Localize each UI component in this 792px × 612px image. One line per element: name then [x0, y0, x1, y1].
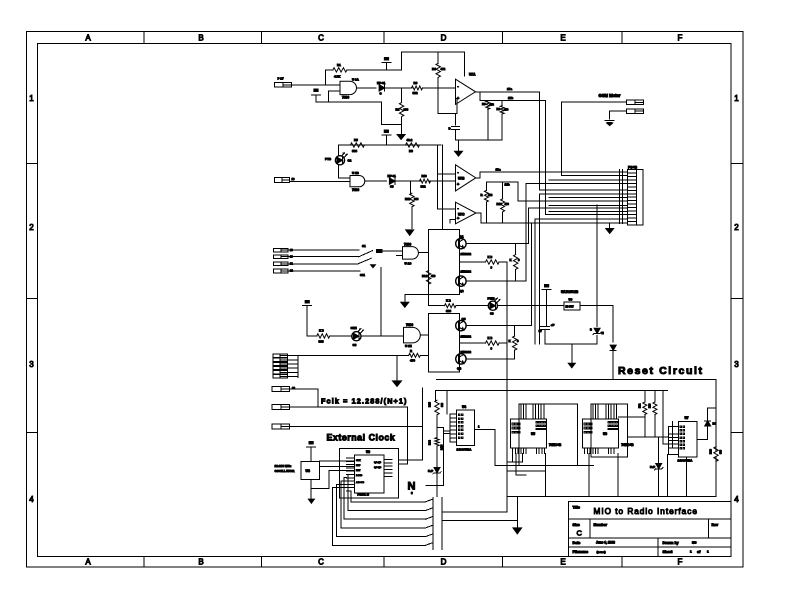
svg-text:QC QD: QC QD: [374, 467, 382, 469]
svg-text:R25: R25: [428, 402, 432, 407]
svg-text:U 1B: U 1B: [352, 171, 360, 175]
diode D2: [389, 178, 395, 184]
svg-text:C3: C3: [390, 185, 394, 189]
IC U7 pin stubs: [669, 426, 679, 428]
reset second wire: [435, 389, 667, 391]
resistor R17 888: [445, 304, 456, 308]
gate U1A input b wire: [329, 90, 340, 92]
wire 17a output: [476, 91, 540, 93]
border frame outer: [27, 32, 744, 568]
transistor Q4 2N2222: [456, 354, 466, 364]
svg-text:470: 470: [410, 359, 415, 363]
svg-text:Q2: Q2: [460, 289, 464, 293]
svg-text:A B C D: A B C D: [356, 481, 364, 484]
svg-text:7400: 7400: [404, 243, 411, 247]
resistor R14 470 vertical: [426, 271, 430, 285]
gate U1C input b stub: [396, 255, 402, 257]
svg-text:OSCILLATOR: OSCILLATOR: [275, 469, 296, 473]
wire drop x535: [534, 219, 536, 344]
wire Q2 collector: [466, 280, 526, 282]
op-amp U7C: [456, 202, 477, 224]
power EN 6: [307, 446, 316, 448]
svg-text:-: -: [457, 83, 459, 88]
wire GSM2 to ground: [610, 110, 627, 112]
ground below R2: [397, 135, 405, 140]
IC U4 pin stubs: [450, 413, 457, 415]
wire cap to rail: [455, 130, 457, 140]
wire op-amp A to cap: [455, 114, 457, 125]
wire sw3: [288, 263, 358, 265]
IC U6 bottom pins: [584, 448, 586, 454]
svg-text:C2: C2: [348, 159, 352, 163]
wire sw1: [288, 249, 359, 251]
svg-text:U7B: U7B: [458, 177, 465, 181]
IC U3 pin stubs: [347, 457, 355, 459]
ground left of block: [405, 293, 429, 295]
connector GSM 2: [627, 109, 644, 114]
op-amp U7C output wire: [476, 212, 481, 214]
transistor Q3 2N2222: [456, 320, 466, 330]
svg-text:CEE: CEE: [351, 326, 357, 330]
wire LED to regulator: [498, 305, 565, 307]
svg-text:1: 1: [734, 94, 739, 103]
svg-text:C: C: [577, 529, 583, 538]
svg-text:K 2: K 2: [446, 299, 451, 303]
svg-text:June 8, 1998: June 8, 1998: [596, 541, 615, 545]
wire R3 to op-amp: [423, 87, 456, 89]
diode D9: [705, 421, 711, 426]
svg-text:C7: C7: [539, 329, 543, 333]
capacitor C7 electrolytic: [546, 306, 548, 326]
wire bank to R21: [298, 354, 409, 356]
voltage regulator U9 78L05: [564, 302, 580, 310]
IC U6 top pins: [592, 404, 594, 419]
svg-text:74161 B: 74161 B: [357, 492, 370, 496]
svg-text:42.2: 42.2: [407, 138, 413, 142]
svg-text:Number: Number: [594, 523, 608, 527]
svg-text:K: K: [509, 339, 511, 343]
svg-text:U7C: U7C: [458, 213, 465, 217]
svg-text:470: 470: [431, 274, 436, 278]
wire 17b: [479, 92, 481, 101]
svg-text:K 8: K 8: [488, 336, 493, 340]
wire U7 pin cross: [672, 421, 674, 448]
wire ground drop x397: [396, 355, 398, 381]
wire 17a drop: [539, 92, 541, 190]
svg-text:Rev: Rev: [712, 523, 719, 527]
svg-text:K 3: K 3: [488, 255, 493, 259]
svg-text:Q4: Q4: [457, 367, 461, 371]
svg-text:U8: U8: [306, 469, 310, 473]
title block frame: [569, 502, 731, 557]
resistor R15 horizontal K3: [459, 261, 485, 263]
svg-text:U7A: U7A: [469, 73, 476, 77]
svg-text:470: 470: [488, 193, 493, 197]
svg-text:Q1: Q1: [460, 235, 464, 239]
wire K3 node down: [506, 262, 508, 343]
svg-text:888: 888: [446, 309, 451, 313]
resistor R16 vertical: [515, 244, 517, 255]
zener D8 5.1V: [656, 464, 662, 469]
wire U4 top: [446, 390, 448, 413]
IC U5 pin dots: [512, 423, 514, 425]
resistor R5 888: [350, 143, 364, 147]
svg-text:U 1E: U 1E: [405, 344, 412, 348]
LED PWR: [488, 301, 497, 310]
wire bank bus: [287, 354, 298, 356]
svg-text:U6: U6: [603, 432, 607, 436]
ground below R11: [406, 230, 414, 236]
reset bottom wire: [507, 496, 716, 498]
resistor R28 vertical: [714, 447, 718, 462]
svg-text:+: +: [457, 182, 460, 187]
wire drop x531.3: [530, 223, 532, 326]
svg-text:18: 18: [292, 177, 295, 181]
svg-text:PWR: PWR: [488, 297, 496, 301]
wire LED to gate U1B: [338, 165, 340, 178]
svg-text:R1: R1: [337, 63, 341, 67]
wire P31: [290, 426, 423, 428]
svg-text:A: A: [85, 558, 91, 567]
connector bank P23-P28: [273, 354, 288, 357]
ground below switch net: [393, 381, 402, 387]
svg-text:C6: C6: [490, 312, 494, 316]
svg-text:MP-01: MP-01: [388, 174, 397, 178]
svg-text:Fclk = 12.288/(N+1): Fclk = 12.288/(N+1): [321, 397, 408, 406]
svg-text:UA7805C/B: UA7805C/B: [561, 290, 579, 294]
resistor R20 horizontal: [459, 342, 485, 344]
zener D6 5.1V: [596, 205, 598, 326]
wire P30 Fclk: [290, 406, 408, 408]
svg-text:K: K: [510, 258, 512, 262]
svg-text:GSM Meter: GSM Meter: [599, 93, 621, 98]
svg-text:5+P: 5+P: [650, 465, 655, 469]
resistor R25 888 vertical: [435, 400, 439, 415]
svg-text:17b: 17b: [508, 96, 513, 100]
svg-text:ENP: ENP: [356, 465, 361, 467]
svg-text:M: M: [602, 331, 604, 335]
wire P17 to gate: [291, 84, 340, 86]
wire gate U1E output: [420, 334, 428, 336]
svg-text:+P: +P: [551, 323, 555, 327]
connector P31: [272, 424, 289, 429]
wire to top rail: [401, 52, 403, 70]
wire node x506.9 down: [506, 343, 508, 496]
wire P29: [290, 388, 319, 390]
svg-text:470: 470: [490, 103, 495, 107]
svg-text:C: C: [318, 34, 324, 43]
svg-text:-: -: [457, 169, 459, 174]
U3 group box: [340, 449, 399, 498]
svg-text:EN: EN: [309, 441, 314, 445]
transistor Q1 2N2222: [456, 238, 466, 248]
svg-text:-: -: [457, 205, 459, 210]
svg-text:R9: R9: [497, 107, 501, 111]
svg-text:LOAD: LOAD: [356, 474, 363, 477]
wire op-amp C input b: [450, 219, 455, 221]
svg-text:R24: R24: [428, 440, 432, 445]
svg-text:R28: R28: [709, 449, 713, 454]
wire gate U1A output: [357, 87, 377, 89]
svg-text:R4: R4: [432, 67, 436, 71]
resistor R22 888: [644, 390, 646, 402]
svg-text:U9: U9: [569, 297, 573, 301]
feedback bottom rail: [481, 222, 628, 224]
title block row lines: [569, 518, 731, 520]
power EN 3: [382, 134, 391, 136]
ground N bus: [516, 497, 518, 528]
svg-text:PTB: PTB: [325, 157, 332, 161]
svg-text:EN: EN: [384, 57, 389, 61]
ground below rail: [571, 344, 573, 363]
resistor R18 888: [317, 334, 330, 338]
svg-text:S21: S21: [360, 273, 365, 277]
svg-text:R8: R8: [409, 149, 413, 153]
svg-text:882: 882: [413, 91, 418, 95]
wire gate U1C output: [418, 252, 428, 254]
connector P29: [272, 387, 289, 392]
svg-text:(none): (none): [597, 550, 606, 554]
IC U6 inner marks: [608, 422, 610, 423]
svg-text:2: 2: [29, 223, 34, 232]
svg-text:A: A: [85, 34, 91, 43]
N bus to reset wires: [442, 511, 507, 513]
svg-text:R10: R10: [422, 174, 428, 178]
IC U5 inner marks: [536, 422, 538, 423]
svg-text:EN: EN: [544, 284, 549, 288]
wire sw2: [288, 256, 359, 258]
svg-text:4.7K: 4.7K: [334, 75, 341, 79]
connector P30: [272, 405, 289, 410]
svg-text:P3+B: P3+B: [628, 165, 637, 169]
svg-text:12.288 MHz: 12.288 MHz: [275, 464, 292, 468]
power EN 5: [303, 304, 312, 306]
resistor R23 888: [654, 390, 656, 402]
svg-text:2488: 2488: [441, 444, 444, 450]
zener D7 5.1V: [434, 468, 440, 473]
svg-text:1: 1: [707, 550, 709, 554]
wire 17b drop: [544, 101, 546, 215]
svg-text:18a: 18a: [496, 167, 501, 171]
svg-text:470: 470: [504, 108, 509, 112]
wire U4 out bus: [495, 464, 594, 466]
resistor R12 470: [485, 182, 487, 191]
svg-text:B: B: [198, 34, 203, 43]
svg-text:R2: R2: [396, 108, 400, 112]
svg-text:7400: 7400: [342, 96, 349, 100]
svg-text:3: 3: [29, 360, 34, 369]
wire U7 left feed: [662, 390, 664, 443]
connector P17: [274, 82, 291, 87]
op-amp U7A: [456, 79, 476, 104]
svg-text:U7: U7: [685, 416, 689, 420]
svg-text:Q3: Q3: [462, 317, 466, 321]
connector P18: [274, 178, 289, 183]
IC U5 top pins: [520, 404, 522, 419]
wire op-amp C input a: [438, 208, 456, 210]
wire PWR row: [428, 294, 430, 305]
resistor R6 470: [487, 100, 489, 102]
wire U6 top pin right: [618, 416, 644, 418]
svg-text:74HC+B: 74HC+B: [621, 443, 634, 447]
connector P19: [273, 248, 288, 252]
connector GSM 1: [627, 100, 644, 105]
svg-text:Size: Size: [573, 523, 580, 527]
svg-text:R3: R3: [414, 81, 418, 85]
svg-text:B: B: [590, 328, 592, 332]
svg-text:CLK: CLK: [356, 460, 361, 462]
resistor R3 882: [412, 86, 423, 90]
svg-text:EN: EN: [384, 130, 389, 134]
wire x407.4 vertical: [406, 407, 408, 464]
svg-text:888: 888: [352, 149, 357, 153]
IC U6 pin dots: [584, 423, 586, 425]
svg-text:2N2222: 2N2222: [461, 350, 472, 354]
svg-text:Sheet: Sheet: [663, 550, 674, 554]
svg-text:U4: U4: [462, 405, 466, 409]
connector P21: [273, 262, 288, 266]
rail below regulator: [545, 343, 597, 345]
U5 group box: [519, 404, 577, 466]
N bus verticals: [432, 497, 434, 549]
svg-text:8: 8: [491, 347, 493, 351]
resistor R4 472 vertical: [437, 52, 439, 63]
wire diode to R3b: [396, 180, 421, 182]
switch S1: [359, 251, 373, 257]
wire regulator out: [580, 305, 613, 307]
wire rail to op-amp B plus: [437, 145, 439, 174]
IC U4 pin marks: [459, 414, 461, 416]
transistor Q2 2N2222: [456, 276, 466, 286]
resistor R8 42.2: [406, 143, 420, 147]
diode D5: [610, 345, 616, 350]
LED C8: [352, 332, 361, 341]
bus wires to P3: [562, 174, 628, 176]
wire sw3 drop: [380, 268, 382, 336]
wire U6 bottom drops: [588, 454, 590, 497]
svg-text:D: D: [441, 558, 447, 567]
IC U3 74161: [354, 455, 384, 493]
svg-text:2N2222: 2N2222: [461, 252, 472, 256]
feedback bottom rail op-amp A: [456, 139, 503, 141]
wire R10 to op-amp B: [430, 180, 456, 182]
capacitor C1: [452, 125, 460, 127]
wire x422.4 vertical: [421, 388, 423, 460]
svg-text:Date: Date: [573, 541, 581, 545]
svg-text:R13: R13: [497, 202, 503, 206]
feedback wire y181.8: [487, 181, 518, 183]
rail R5 R8: [339, 144, 441, 146]
wire reset bottom stub: [686, 457, 688, 497]
wire U5 to bottom bus: [515, 454, 517, 476]
svg-text:B: B: [198, 558, 203, 567]
wire bead to gate U1C: [382, 250, 403, 252]
svg-text:Filename: Filename: [573, 550, 589, 554]
wire osc down: [310, 480, 312, 500]
svg-text:1: 1: [29, 94, 34, 103]
svg-text:R14: R14: [422, 274, 428, 278]
IC U6 74HC: [582, 419, 618, 448]
wire sw4: [288, 270, 360, 272]
wire LED C8 to gate: [361, 335, 404, 337]
svg-text:882: 882: [421, 185, 426, 189]
P3 pin stub ticks: [619, 169, 621, 223]
wire drop x528.3: [527, 208, 529, 243]
resistor R1 4.7K: [333, 68, 347, 72]
power EN 4: [542, 288, 551, 290]
svg-text:3: 3: [734, 360, 739, 369]
svg-text:888: 888: [441, 402, 444, 407]
wire op-amp A plus input: [437, 88, 439, 114]
IC U5 74HC: [510, 419, 546, 448]
wire gate U1B output: [365, 180, 387, 182]
svg-text:E: E: [560, 34, 565, 43]
op-amp U7B: [456, 165, 476, 191]
svg-text:R6: R6: [482, 102, 486, 106]
svg-text:470: 470: [505, 202, 510, 206]
svg-text:C8: C8: [353, 343, 357, 347]
diode D1: [379, 85, 385, 91]
resistor R21 470: [409, 353, 421, 357]
AND gate U1C 7400: [403, 247, 419, 260]
svg-text:888: 888: [319, 340, 324, 344]
svg-text:D: D: [449, 127, 452, 131]
wire notch to reset: [426, 485, 443, 487]
resistor R13 470: [502, 182, 504, 199]
border frame inner: [38, 44, 732, 557]
svg-text:2: 2: [734, 223, 739, 232]
svg-text:ENT: ENT: [356, 470, 361, 472]
svg-text:R: R: [410, 349, 412, 353]
wire Q1 collector: [466, 243, 528, 245]
op-amp U7B output wire 18a: [476, 177, 480, 179]
wire drop x539.5 lower: [539, 194, 541, 344]
resistor R2 886 vertical: [401, 88, 403, 102]
IC U7 pin marks: [680, 426, 682, 428]
svg-text:8: 8: [491, 266, 493, 270]
svg-text:of: of: [697, 550, 701, 554]
svg-text:F: F: [678, 558, 683, 567]
svg-text:5+P: 5+P: [428, 469, 433, 473]
svg-text:D9: D9: [713, 422, 717, 426]
svg-text:18b: 18b: [505, 182, 510, 186]
svg-text:MIO to Radio Interface: MIO to Radio Interface: [594, 507, 698, 516]
border grid ticks: [143, 32, 145, 44]
U6 group box: [591, 404, 627, 457]
AND gate U1B 7400: [350, 176, 365, 187]
svg-text:8: 8: [517, 339, 519, 343]
svg-text:U3: U3: [366, 450, 370, 454]
wire P3 ground: [609, 223, 611, 228]
wire GSM1: [562, 101, 627, 103]
svg-text:R23: R23: [649, 403, 652, 408]
IC U7 14069: [678, 421, 697, 457]
resistor R10 882: [420, 179, 431, 183]
svg-text:Reset Circuit: Reset Circuit: [618, 365, 704, 377]
ground below op-amp A: [458, 140, 460, 151]
wire U7 pin to bottom: [667, 454, 669, 496]
svg-text:7400: 7400: [352, 188, 359, 192]
svg-text:1: 1: [478, 425, 480, 429]
resistor R11 888 vertical: [410, 181, 412, 193]
svg-text:1: 1: [690, 550, 692, 554]
svg-text:888: 888: [720, 449, 723, 454]
svg-text:S1: S1: [362, 244, 366, 248]
transistor block frame 2: [429, 314, 460, 372]
svg-text:MP-01: MP-01: [377, 81, 386, 85]
IC U4 output wire: [475, 428, 495, 430]
wire R24 to U4 pins: [443, 430, 450, 432]
